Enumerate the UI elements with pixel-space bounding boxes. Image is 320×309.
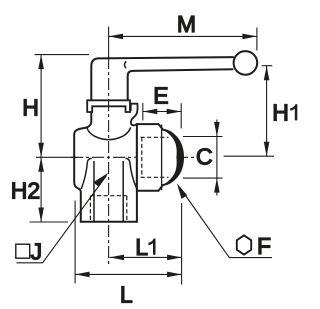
dimension H2 extension bottom — [30, 221, 69, 223]
dimension L line — [75, 273, 182, 275]
handle lever outer outline — [91, 57, 234, 100]
hex nut outline — [137, 124, 183, 191]
handle boss arc mark — [124, 61, 126, 68]
dimension M arrow left — [109, 34, 124, 40]
svg-text:H: H — [22, 94, 39, 120]
leader J arrowhead — [93, 173, 108, 187]
body cavity left curtain — [81, 158, 92, 189]
body cavity right curtain — [126, 158, 137, 188]
svg-text:J: J — [31, 239, 43, 265]
body inner wall left — [93, 161, 95, 222]
label hexagon F symbol — [237, 235, 251, 254]
svg-text:H2: H2 — [11, 177, 40, 203]
hex nut thread dashed top — [141, 136, 169, 138]
dimension L arrow left — [75, 272, 90, 278]
dimension H1 arrow bottom — [264, 142, 270, 157]
dimension H1 extension top — [262, 65, 273, 67]
handle lever inner outline — [128, 69, 234, 100]
hex nut flat boundary line — [161, 125, 163, 191]
dimension E extension left — [142, 103, 144, 121]
dimension H2 arrow top — [38, 157, 44, 172]
dimension E line — [143, 111, 181, 113]
svg-text:E: E — [153, 82, 168, 108]
dimension M arrow right — [242, 34, 257, 40]
hex nut chamfer crescent — [163, 130, 183, 185]
dimension H extension middle — [36, 156, 77, 158]
leader J line — [17, 176, 107, 263]
body outline — [74, 112, 137, 222]
handle ball end — [234, 51, 258, 75]
body ball dome arc — [87, 127, 131, 139]
body inner wall right — [122, 161, 124, 222]
svg-text:M: M — [177, 11, 196, 37]
vertical centerline — [108, 57, 110, 267]
bottom port thread dashed left — [89, 196, 91, 221]
dimension C arrow bottom — [214, 178, 220, 193]
dimension H1 arrow top — [264, 66, 270, 81]
svg-text:C: C — [196, 144, 213, 170]
dimension H line — [40, 55, 42, 158]
svg-text:F: F — [257, 233, 271, 259]
dimension C line — [216, 120, 218, 196]
leader F arrowhead — [177, 183, 187, 199]
dimension L arrow right — [167, 272, 182, 278]
dimension C arrow top — [214, 122, 220, 137]
dimension H arrow top — [38, 55, 44, 70]
dimension H1 extension bottom — [224, 155, 274, 157]
gland right ear and flare — [131, 104, 138, 126]
dimension C extension top — [183, 136, 223, 138]
dimension E arrow right — [167, 109, 182, 115]
leader F line — [180, 187, 273, 258]
gland flange — [87, 100, 130, 112]
horizontal port centerline — [71, 156, 197, 158]
dimension C extension bottom — [183, 177, 223, 179]
dimension L extension left — [74, 201, 76, 284]
dimension E arrow left — [143, 109, 158, 115]
dimension L1 line — [110, 256, 182, 258]
svg-text:L: L — [120, 281, 133, 307]
dimension M extension right — [256, 28, 258, 51]
bottom port thread depth dashed — [90, 195, 126, 197]
svg-text:L: L — [135, 234, 148, 260]
dimension L extension right — [181, 203, 183, 285]
label square J symbol — [16, 244, 30, 258]
dimension E extension right — [180, 103, 182, 128]
hex nut thread dashed bottom — [141, 176, 169, 178]
dimension H2 line — [40, 157, 42, 222]
dimension H arrow bottom — [38, 143, 44, 158]
dimension H1 line — [266, 66, 268, 157]
dimension L1 arrow left — [110, 255, 125, 261]
dimension H extension top — [35, 54, 90, 56]
hex nut thread depth dashed — [141, 137, 143, 177]
dimension M line — [109, 35, 257, 37]
svg-text:H: H — [272, 99, 289, 125]
dimension L1 arrow right — [167, 255, 182, 261]
dimension H2 arrow bottom — [38, 208, 44, 223]
bottom port thread dashed right — [126, 196, 128, 221]
dimension M extension left — [108, 27, 110, 58]
